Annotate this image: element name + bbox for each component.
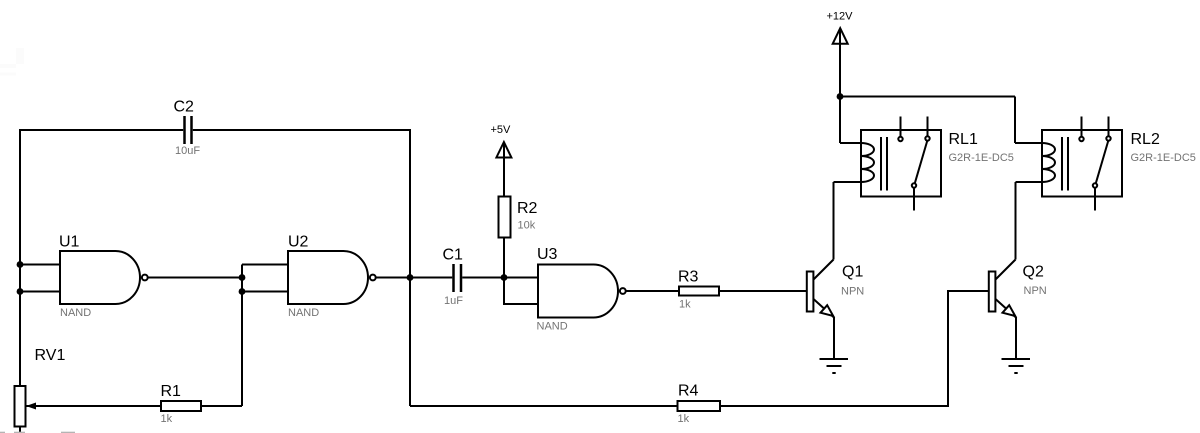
wire RL2 coil bottom stub (1016, 181, 1043, 183)
RL1 coil (861, 143, 874, 182)
relay RL2 box (1042, 130, 1122, 197)
ground Q1 (820, 359, 849, 373)
faint top-left artifact (0, 48, 24, 76)
wire R3 to Q1 base (719, 290, 807, 292)
wire U2 output (376, 277, 452, 279)
svg-text:NAND: NAND (288, 307, 319, 319)
svg-text:RV1: RV1 (35, 347, 66, 364)
svg-text:R2: R2 (517, 200, 538, 217)
RV1 wiper arrow (26, 403, 36, 410)
resistor R1 (161, 401, 201, 411)
node U3 input junction (501, 274, 508, 281)
svg-text:R3: R3 (678, 269, 699, 286)
wire U3 input B stub (504, 278, 538, 305)
potentiometer RV1 body (15, 386, 26, 427)
RL2 coil (1042, 143, 1055, 182)
wire RV1 bottom (19, 427, 21, 433)
transistor Q2 base bar (989, 272, 996, 312)
Q2 emitter arrow (1003, 305, 1016, 316)
svg-text:G2R-1E-DC5: G2R-1E-DC5 (1131, 152, 1196, 164)
RL2 switch blade (1096, 141, 1108, 183)
wire RL1 coil top stub (840, 142, 861, 144)
ground Q2 (1002, 359, 1031, 373)
wire Q1 collector vertical (833, 182, 835, 260)
Q1 emitter arrow (821, 305, 834, 316)
svg-text:C1: C1 (443, 247, 464, 264)
svg-text:10k: 10k (518, 220, 536, 232)
svg-text:1k: 1k (678, 413, 690, 425)
wire C2 top-right horizontal (193, 129, 410, 131)
svg-text:Q2: Q2 (1023, 264, 1044, 281)
faint bottom-edge artifacts (0, 432, 75, 433)
svg-text:R4: R4 (678, 383, 699, 400)
wire RV1 wiper to R1 (26, 405, 161, 407)
svg-text:+12V: +12V (827, 11, 854, 23)
svg-text:1uF: 1uF (444, 295, 463, 307)
wire Q2 emitter vertical (1015, 317, 1017, 359)
resistor R2 (499, 197, 511, 238)
Q2 collector diagonal (996, 260, 1016, 280)
node U2 input junction (239, 274, 246, 281)
wire RL1 coil bottom stub (834, 181, 862, 183)
wire U1 output (148, 277, 242, 279)
node U1 input B junction (17, 288, 24, 295)
svg-text:R1: R1 (161, 383, 182, 400)
svg-text:RL1: RL1 (949, 131, 978, 148)
svg-text:RL2: RL2 (1131, 131, 1160, 148)
transistor Q1 base bar (807, 272, 814, 312)
U3 output bubble (620, 288, 626, 294)
wire U3 output (626, 290, 679, 292)
svg-text:U1: U1 (59, 234, 80, 251)
capacitor C1 (454, 264, 462, 292)
U1 output bubble (142, 275, 148, 281)
svg-text:Q1: Q1 (842, 264, 863, 281)
U2 output bubble (370, 275, 376, 281)
wire +12V vertical (839, 30, 841, 143)
wire R1 right (201, 405, 242, 407)
svg-text:10uF: 10uF (175, 145, 200, 157)
wire Q1 emitter vertical (833, 317, 835, 359)
wire feedback vertical x410 (409, 129, 411, 406)
wire R4 left horizontal (410, 405, 678, 407)
RL2 contact terminal lines (1082, 117, 1109, 211)
svg-text:NPN: NPN (1024, 285, 1047, 297)
Q2 emitter diagonal (996, 299, 1017, 318)
RL1 contact terminal lines (901, 117, 928, 211)
node main junction at x410 (407, 274, 414, 281)
wire R4 right horizontal (720, 405, 948, 407)
wire U2 input A stub (242, 264, 288, 266)
wire +5V to R2 (503, 144, 505, 197)
wire U1 input B (20, 291, 60, 293)
svg-text:NAND: NAND (60, 307, 91, 319)
Q1 collector diagonal (814, 260, 834, 280)
power +5V arrow (496, 142, 511, 158)
RL1 switch blade (915, 141, 927, 183)
op-amp U2 NAND gate body (288, 251, 368, 304)
svg-text:C2: C2 (174, 99, 195, 116)
wire R2 to junction (503, 238, 505, 279)
Q1 emitter diagonal (814, 299, 835, 318)
resistor R4 (678, 401, 721, 411)
relay RL1 box (861, 130, 941, 197)
svg-text:1k: 1k (679, 299, 691, 311)
power +12V arrow (833, 28, 848, 44)
node U2 input B junction (239, 288, 246, 295)
RL2 core bars (1062, 137, 1068, 191)
wire Q2 collector vertical (1015, 182, 1017, 260)
wire +12V to RL2 horizontal (840, 96, 1015, 98)
wire C1 to U3 (462, 277, 538, 279)
wire U2 input riser (241, 265, 243, 407)
wire C2 top-left horizontal (20, 129, 183, 131)
op-amp U3 NAND gate body (538, 265, 618, 318)
wire RL2 feed vertical (1014, 97, 1016, 144)
resistor R3 (679, 287, 719, 296)
capacitor C2 (185, 116, 192, 144)
node +12V junction (837, 93, 844, 100)
wire RL2 coil top stub (1015, 142, 1042, 144)
svg-text:U2: U2 (288, 234, 309, 251)
svg-text:U3: U3 (537, 246, 558, 263)
RL1 contact circles (898, 137, 902, 141)
RL2 contact circles (1079, 137, 1083, 141)
op-amp U1 NAND gate body (60, 251, 140, 304)
svg-text:NPN: NPN (841, 286, 864, 298)
wire Q2 base riser (948, 291, 989, 407)
svg-text:+5V: +5V (491, 124, 512, 136)
RL1 core bars (881, 137, 887, 191)
svg-text:G2R-1E-DC5: G2R-1E-DC5 (949, 152, 1014, 164)
svg-text:1k: 1k (161, 413, 173, 425)
svg-text:NAND: NAND (537, 321, 568, 333)
wire left vertical rail (19, 129, 21, 386)
node U1 input A junction (17, 261, 24, 268)
wire U2 input B stub (242, 291, 288, 293)
wire U1 input A (20, 264, 60, 266)
